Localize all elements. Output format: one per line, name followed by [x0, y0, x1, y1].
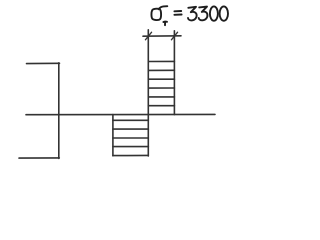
label digit 3 first — [188, 7, 197, 21]
upper bar right edge vertical — [173, 31, 175, 115]
upper bar hatch rung 2 — [148, 69, 174, 71]
upper bar hatch rung 5 — [148, 96, 174, 98]
left bracket vertical — [58, 63, 60, 159]
label digit 3 flat-top — [199, 7, 208, 21]
upper bar left edge / lower bar right edge vertical — [147, 30, 149, 156]
lower bar hatch rung 1 — [113, 119, 148, 121]
lower bar hatch rung 3 — [113, 137, 148, 139]
upper bar hatch rung 1 — [148, 60, 174, 62]
label subscript t bar — [163, 21, 167, 23]
upper bar hatch rung 4 — [148, 87, 174, 89]
label equals top — [174, 10, 181, 12]
label subscript t stem — [164, 22, 166, 25]
axis (zero line) — [26, 113, 215, 115]
dimension tick right — [171, 32, 177, 40]
lower bar bottom edge — [113, 154, 148, 156]
upper bar hatch rung 6 — [148, 105, 174, 107]
label digit 0 first — [210, 6, 218, 20]
lower bar hatch rung 2 — [113, 128, 148, 130]
label sigma tail — [159, 6, 168, 9]
upper bar hatch rung 3 — [148, 78, 174, 80]
label sigma body — [151, 9, 161, 20]
lower bar left edge vertical — [112, 115, 114, 156]
left bracket bottom horizontal — [19, 157, 59, 159]
left bracket top horizontal — [27, 62, 60, 64]
lower bar hatch rung 4 — [113, 146, 148, 148]
dimension tick left — [145, 32, 151, 40]
label equals bottom — [174, 14, 181, 16]
label digit 0 second — [220, 6, 228, 20]
dimension line — [143, 35, 181, 37]
